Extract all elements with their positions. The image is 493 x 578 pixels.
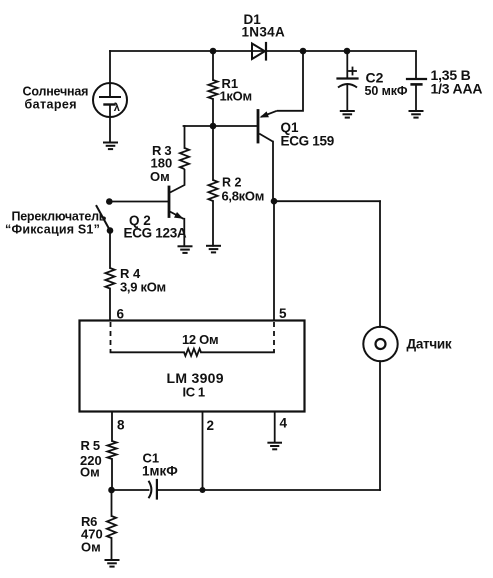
svg-text:6: 6	[117, 307, 125, 322]
ground C2	[340, 111, 355, 118]
ground battery	[409, 111, 424, 118]
svg-text:5: 5	[279, 306, 287, 321]
ground pin 4	[267, 443, 282, 450]
label solar battery	[23, 85, 89, 112]
svg-text:8: 8	[117, 418, 125, 433]
label R6	[81, 514, 103, 555]
label Q2	[124, 213, 187, 241]
capacitor C1	[149, 480, 157, 499]
node top rail / Q1 emitter junction	[300, 48, 307, 55]
svg-text:1мкФ: 1мкФ	[142, 464, 178, 479]
svg-text:1N34A: 1N34A	[242, 25, 286, 40]
wire Q2 base	[109, 201, 168, 203]
label pin 2	[207, 418, 215, 433]
label pin 5	[279, 306, 287, 321]
ground R2	[206, 246, 221, 253]
svg-text:2: 2	[207, 418, 215, 433]
label pin 4	[280, 416, 288, 431]
switch S1 bottom contact	[107, 227, 114, 234]
wire top supply rail	[110, 50, 416, 52]
wire R3 top	[184, 126, 186, 148]
ground Q2 emitter	[178, 246, 193, 253]
resistor R3	[180, 148, 189, 169]
wire R6 top	[111, 490, 113, 516]
wire Q2 emitter down	[183, 219, 185, 246]
svg-text:12 Ом: 12 Ом	[182, 332, 218, 347]
label R3	[150, 143, 172, 184]
wire R3 to Q2 collector	[170, 169, 185, 193]
resistor R6	[107, 516, 116, 538]
wire sensor top	[379, 201, 381, 327]
resistor 12 Ом internal	[184, 349, 201, 356]
svg-text:1кОм: 1кОм	[220, 89, 252, 104]
wire R4 to pin 6	[109, 289, 111, 321]
wire battery top	[415, 51, 417, 79]
wire Q1 emitter to rail	[277, 51, 303, 111]
svg-text:R 2: R 2	[222, 176, 242, 190]
label 12 Ом	[182, 332, 218, 347]
svg-text:λ: λ	[114, 102, 120, 114]
svg-text:1/3 AAA: 1/3 AAA	[431, 81, 483, 97]
label D1	[242, 12, 286, 40]
ground R6	[105, 560, 120, 567]
wire C2 top	[346, 51, 348, 79]
wire node to C1	[112, 489, 149, 491]
svg-text:батарея: батарея	[25, 98, 77, 112]
label C2	[365, 70, 408, 99]
svg-text:ECG 159: ECG 159	[281, 134, 334, 149]
wire R4 top	[109, 231, 111, 269]
svg-text:50 мкФ: 50 мкФ	[365, 84, 408, 98]
wire R6 bottom	[111, 538, 113, 560]
svg-text:ECG 123A: ECG 123A	[124, 226, 187, 241]
label R2	[222, 176, 265, 204]
internal dashed wire pin 5	[273, 322, 275, 352]
internal dashed wire pin 6	[110, 322, 112, 352]
switch S1 blade	[97, 206, 111, 231]
node Q1 collector / pin5 / sensor junction	[271, 198, 278, 205]
svg-text:3,9 кОм: 3,9 кОм	[120, 280, 166, 295]
svg-text:Ом: Ом	[81, 540, 101, 555]
sensor (Датчик)	[363, 327, 397, 361]
wire bottom to sensor	[203, 489, 381, 491]
switch S1 top contact	[106, 198, 113, 205]
ground solar battery	[103, 143, 118, 150]
svg-text:Ом: Ом	[80, 465, 100, 480]
wire pin 2	[202, 412, 204, 491]
battery B1 1/3 AAA	[407, 79, 426, 84]
wire C1 to pin2 node	[157, 489, 203, 491]
wire Q1 base	[184, 125, 258, 127]
svg-text:6,8кОм: 6,8кОм	[222, 189, 265, 204]
resistor R4	[105, 268, 114, 289]
label LM 3909 IC1	[167, 370, 224, 400]
wire R1 bottom	[212, 99, 214, 126]
svg-text:Переключатель: Переключатель	[12, 210, 107, 224]
label pin 8	[117, 418, 125, 433]
svg-text:R 5: R 5	[81, 438, 100, 453]
internal wire 12 Ohm left	[111, 351, 185, 353]
wire R2 top	[212, 126, 214, 180]
label R1	[220, 76, 252, 104]
label pin 6	[117, 307, 125, 322]
transistor Q2 ECG123A	[169, 187, 184, 219]
wire pin 8	[111, 412, 113, 442]
wire pin 4	[274, 412, 276, 443]
svg-text:4: 4	[280, 416, 288, 431]
resistor R1	[208, 80, 217, 99]
wire Q1 collector down	[272, 142, 274, 202]
transistor Q1 ECG159	[258, 111, 277, 143]
capacitor C2	[338, 68, 358, 88]
wire R2 bottom	[212, 201, 214, 246]
op-amp/IC U1 LM3909 box	[80, 321, 305, 412]
label C1	[142, 451, 178, 479]
node R1/R2/base junction	[210, 123, 217, 130]
svg-text:Датчик: Датчик	[407, 337, 452, 352]
wire pin 5	[273, 201, 275, 320]
node pin2 / bottom wire junction	[200, 487, 206, 493]
svg-text:Солнечная: Солнечная	[23, 85, 89, 99]
svg-text:IC 1: IC 1	[183, 385, 205, 400]
wire C2 bottom	[346, 85, 348, 111]
wire solar battery top	[109, 51, 111, 97]
wire solar battery bottom	[109, 105, 111, 143]
wire R1 top	[212, 51, 214, 80]
label battery	[431, 67, 483, 97]
label switch S1	[5, 210, 107, 237]
wire sensor bottom	[379, 361, 381, 490]
solar battery BT (photocell)	[93, 83, 127, 117]
diode D1	[252, 43, 266, 60]
internal wire 12 Ohm right	[201, 351, 274, 353]
node top rail / R1 junction	[210, 48, 217, 55]
node top rail / C2 junction	[344, 48, 351, 55]
label R5	[80, 438, 102, 480]
svg-text:Ом: Ом	[150, 169, 170, 184]
label Q1	[281, 120, 334, 149]
wire junction to sensor	[274, 200, 380, 202]
wire R5 bottom	[111, 459, 113, 490]
node R5/R6/C1 junction	[108, 487, 115, 494]
resistor R2	[208, 180, 217, 201]
wire battery bottom	[415, 84, 417, 110]
label R4	[120, 266, 166, 295]
resistor R5	[107, 441, 116, 459]
label sensor	[407, 337, 452, 352]
svg-text:“Фиксация S1”: “Фиксация S1”	[5, 223, 100, 237]
